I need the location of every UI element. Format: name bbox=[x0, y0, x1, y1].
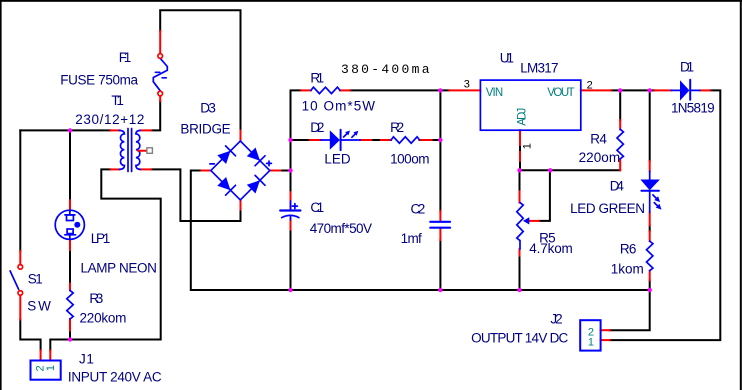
switch S1 bbox=[10, 265, 23, 296]
svg-text:F1: F1 bbox=[119, 50, 132, 65]
transformer T1 bbox=[119, 129, 152, 172]
pin stub bridge top bbox=[240, 131, 242, 141]
pin stub T1 primary bottom bbox=[111, 168, 120, 170]
pin stub R6 top bbox=[649, 231, 651, 241]
pin stub C1 top bbox=[290, 192, 292, 209]
neon lamp LP1 bbox=[55, 210, 84, 239]
pin stub C2 bottom bbox=[439, 229, 441, 240]
pin stub LP1 bottom bbox=[69, 239, 71, 250]
pin stub R2 left bbox=[381, 139, 391, 141]
wire D2 anode branch bbox=[291, 139, 311, 141]
svg-text:1: 1 bbox=[588, 336, 594, 348]
svg-text:1N5819: 1N5819 bbox=[671, 101, 715, 116]
wire LP1 branch upper bbox=[69, 130, 71, 200]
wire R3 bottom to rail bbox=[69, 331, 71, 340]
pin stub R5 wiper bbox=[529, 220, 539, 222]
svg-text:R2: R2 bbox=[390, 120, 404, 135]
svg-text:SW: SW bbox=[27, 299, 51, 314]
pin stub T1 secondary top bbox=[140, 129, 151, 131]
LED D2 bbox=[321, 130, 360, 150]
svg-text:10 Om*5W: 10 Om*5W bbox=[302, 98, 376, 113]
svg-text:1: 1 bbox=[45, 365, 57, 371]
svg-text:R3: R3 bbox=[89, 291, 103, 306]
regulator U1 LM317 body bbox=[480, 80, 580, 130]
svg-text:D3: D3 bbox=[200, 101, 216, 116]
pin stub R4 bottom bbox=[619, 159, 621, 170]
pin stub J2 pin 2 bbox=[601, 329, 610, 331]
svg-text:U1: U1 bbox=[500, 51, 514, 66]
fuse F1 bbox=[153, 54, 167, 96]
wire D2 cathode to R2 bbox=[371, 139, 381, 141]
LED D4 bbox=[640, 171, 661, 212]
wire R1 output to U1 VIN bbox=[350, 89, 450, 91]
pin stub R3 bottom bbox=[69, 319, 71, 331]
resistor R3 bbox=[67, 290, 73, 319]
svg-text:470mf*50V: 470mf*50V bbox=[310, 221, 372, 236]
wire bridge minus to ground rail bbox=[191, 171, 650, 291]
wire ADJ row bbox=[520, 169, 621, 171]
svg-text:220kom: 220kom bbox=[80, 311, 127, 326]
svg-text:C1: C1 bbox=[310, 200, 324, 215]
pin stub bridge bottom bbox=[240, 200, 242, 210]
pin stub U1 VOUT bbox=[581, 89, 611, 91]
pin stub R4 top bbox=[619, 120, 621, 129]
wire C1 vertical upper bbox=[291, 90, 302, 192]
svg-text:S1: S1 bbox=[28, 272, 43, 287]
pin stub R5 bottom bbox=[519, 249, 521, 255]
svg-text:1: 1 bbox=[521, 143, 533, 149]
pin stub D2 cathode bbox=[360, 139, 371, 141]
pin stub J2 pin 1 bbox=[601, 339, 610, 341]
svg-text:C2: C2 bbox=[411, 201, 426, 216]
svg-text:100om: 100om bbox=[390, 152, 429, 167]
svg-text:LM317: LM317 bbox=[520, 61, 558, 76]
pin stub U1 VIN bbox=[449, 89, 480, 91]
svg-text:R6: R6 bbox=[620, 242, 637, 257]
svg-text:2: 2 bbox=[587, 79, 593, 91]
wire bridge plus to C1 node bbox=[280, 170, 290, 172]
svg-text:ADJ: ADJ bbox=[516, 108, 528, 126]
pin stub C2 top bbox=[439, 211, 441, 221]
svg-text:220om: 220om bbox=[579, 150, 621, 165]
pin stub R5 top bbox=[519, 191, 521, 202]
resistor R6 bbox=[647, 241, 653, 271]
svg-text:R4: R4 bbox=[590, 132, 607, 147]
svg-text:3: 3 bbox=[464, 79, 470, 91]
wire C2 vertical upper bbox=[439, 90, 441, 211]
pin stub R1 left bbox=[301, 89, 311, 91]
svg-text:R1: R1 bbox=[310, 71, 324, 86]
pin stub S1 top bbox=[19, 251, 21, 264]
wire D4 branch upper bbox=[649, 90, 651, 161]
wire R6 bottom to rail bbox=[649, 281, 651, 291]
wire C1 vertical lower bbox=[290, 230, 292, 291]
svg-text:LP1: LP1 bbox=[91, 231, 111, 246]
pin stub S1 bottom bbox=[19, 296, 21, 320]
diode D1 bbox=[671, 80, 700, 101]
potentiometer R5 bbox=[517, 203, 530, 250]
wire ADJ to R5 bbox=[519, 170, 521, 191]
svg-text:4.7kom: 4.7kom bbox=[529, 241, 573, 256]
wire J1 pin 1 to R3 node to T1 primary bottom bbox=[50, 169, 160, 350]
pin stub R6 bottom bbox=[649, 271, 651, 281]
capacitor C1 bbox=[280, 201, 300, 220]
pin stub D4 cathode bbox=[649, 212, 651, 225]
svg-text:VOUT: VOUT bbox=[547, 87, 575, 99]
svg-text:D1: D1 bbox=[680, 60, 694, 75]
pin stub U1 ADJ bbox=[519, 130, 521, 161]
wire R2 output to C2 node bbox=[432, 139, 441, 141]
svg-text:LED GREEN: LED GREEN bbox=[570, 201, 645, 216]
pin stub J1 pin 2 bbox=[40, 351, 42, 361]
pin stub R3 top bbox=[69, 284, 71, 291]
pin stub bridge left bbox=[202, 170, 211, 172]
wire R4 branch upper bbox=[619, 90, 621, 120]
pin stub R2 right bbox=[419, 139, 431, 141]
pin stub D1 anode bbox=[654, 89, 671, 91]
pin stub LP1 top bbox=[69, 200, 71, 210]
pin stub D2 anode bbox=[310, 139, 321, 141]
pin stub C1 bottom bbox=[290, 219, 292, 230]
svg-text:BRIDGE: BRIDGE bbox=[180, 122, 230, 137]
wire top rail F1 to bridge bbox=[160, 10, 240, 131]
wire R5 bottom to rail bbox=[519, 256, 521, 290]
svg-text:J2: J2 bbox=[550, 312, 562, 327]
svg-text:1kom: 1kom bbox=[611, 262, 644, 277]
wire S1 upper branch bbox=[19, 130, 21, 251]
svg-text:T1: T1 bbox=[111, 93, 124, 108]
resistor R2 bbox=[391, 137, 419, 143]
svg-text:LED: LED bbox=[324, 152, 350, 167]
pin stub F1 bottom bbox=[159, 96, 161, 101]
pin stub F1 top bbox=[159, 31, 161, 53]
wire VOUT rail to D1 anode bbox=[611, 89, 655, 91]
resistor R4 bbox=[617, 129, 623, 159]
wire J2 pin 2 to ground rail bbox=[610, 290, 650, 330]
svg-text:380-400ma: 380-400ma bbox=[341, 62, 430, 77]
pin stub T1 primary top bbox=[111, 129, 120, 131]
pin stub T1 secondary bottom bbox=[140, 168, 151, 170]
junction node dots bbox=[68, 128, 72, 132]
wire T1 secondary bottom to bridge AC2 bbox=[151, 169, 241, 221]
wire LP1 to R3 bbox=[69, 250, 71, 284]
pin stub R1 right bbox=[340, 89, 350, 91]
wire R5 wiper to ADJ row bbox=[539, 170, 550, 221]
connector J1 bbox=[31, 361, 61, 380]
svg-text:OUTPUT 14V DC: OUTPUT 14V DC bbox=[471, 331, 568, 346]
wire ADJ pin gaps bbox=[519, 145, 521, 170]
pin stub D1 cathode bbox=[700, 89, 710, 91]
wire mains top rail to T1 primary top bbox=[20, 129, 110, 131]
connector J2 bbox=[580, 320, 600, 350]
svg-text:FUSE 750ma: FUSE 750ma bbox=[60, 73, 138, 88]
capacitor C2 bbox=[430, 222, 450, 228]
svg-text:LAMP NEON: LAMP NEON bbox=[81, 261, 157, 276]
wire F1 bottom to T1 secondary top bbox=[151, 101, 160, 130]
svg-text:J1: J1 bbox=[79, 351, 94, 366]
pin stub D4 anode bbox=[649, 161, 651, 171]
bridge rectifier D3 bbox=[210, 141, 272, 200]
wire S1 lower to J1 pin 2 bbox=[20, 320, 40, 351]
wire D4 to R6 bbox=[649, 226, 651, 232]
pin stub J1 pin 1 bbox=[49, 351, 51, 361]
resistor R1 bbox=[311, 87, 340, 93]
pin stub bridge right bbox=[270, 170, 281, 172]
svg-text:D2: D2 bbox=[310, 120, 324, 135]
wire D1 cathode to right rail to J2 pin 1 bbox=[610, 90, 721, 340]
svg-text:1mf: 1mf bbox=[401, 231, 422, 246]
svg-text:INPUT 240V AC: INPUT 240V AC bbox=[68, 369, 162, 384]
svg-text:D4: D4 bbox=[610, 178, 625, 193]
svg-text:VIN: VIN bbox=[486, 87, 504, 99]
svg-text:230/12+12: 230/12+12 bbox=[75, 112, 144, 127]
wire C2 vertical lower bbox=[439, 240, 441, 290]
